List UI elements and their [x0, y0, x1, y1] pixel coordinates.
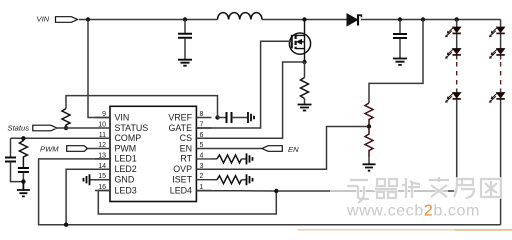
- resistor status pullup: [62, 109, 70, 129]
- svg-text:9: 9: [102, 111, 106, 118]
- node status junction: [64, 126, 68, 130]
- svg-text:EN: EN: [288, 145, 299, 154]
- node source junction: [302, 60, 306, 64]
- IC pin labels left: [115, 112, 149, 195]
- svg-text:LED4: LED4: [170, 185, 192, 195]
- capacitor COMP series: [18, 168, 29, 182]
- wire top rail: [79, 19, 501, 21]
- svg-text:LED2: LED2: [115, 164, 137, 174]
- diode D1: [347, 14, 361, 26]
- port Status: [8, 123, 96, 132]
- wire LED string 2 column: [500, 20, 502, 225]
- svg-text:1: 1: [200, 184, 204, 191]
- ground ISET: [247, 174, 253, 185]
- svg-text:7: 7: [200, 122, 204, 129]
- IC U1 body: [110, 106, 196, 201]
- IC pin numbers right: [200, 111, 204, 191]
- svg-text:VREF: VREF: [168, 112, 192, 122]
- node OVP tap: [421, 17, 425, 21]
- wire OVP feed: [369, 20, 423, 104]
- svg-text:PWM: PWM: [115, 143, 137, 153]
- capacitor COMP parallel: [5, 138, 23, 181]
- node LED2 bottom junction: [64, 223, 68, 227]
- svg-text:GATE: GATE: [168, 123, 192, 133]
- wire LED4 return: [196, 190, 456, 192]
- svg-text:10: 10: [98, 122, 106, 129]
- ground VREF cap: [248, 112, 254, 123]
- ground GND pin: [84, 174, 111, 185]
- svg-text:STATUS: STATUS: [115, 123, 149, 133]
- svg-text:VIN: VIN: [37, 15, 50, 24]
- wire LED3 return: [98, 191, 276, 215]
- capacitor input: [178, 20, 192, 60]
- LED D7 string2: [489, 93, 505, 103]
- capacitor output: [393, 20, 407, 59]
- wire OVP bottom: [368, 157, 370, 164]
- port VIN: [37, 15, 78, 24]
- watermark halo: [347, 177, 501, 203]
- svg-text:CS: CS: [180, 133, 192, 143]
- node COMP junction: [21, 136, 25, 140]
- svg-text:EN: EN: [180, 143, 192, 153]
- IC pin stubs left: [95, 118, 110, 191]
- node VREF tap: [215, 115, 219, 119]
- resistor COMP: [19, 138, 27, 167]
- svg-text:6: 6: [200, 132, 204, 139]
- LED D5 string2: [489, 27, 505, 37]
- node output cap tap: [398, 17, 402, 21]
- wire LED2 drop: [66, 169, 110, 224]
- ground input cap: [178, 60, 192, 66]
- transistor Q1 (N-MOSFET): [289, 20, 310, 63]
- ground OVP divider: [363, 164, 376, 170]
- svg-text:VIN: VIN: [115, 112, 130, 122]
- node OVP junction: [367, 124, 371, 128]
- ground COMP: [17, 182, 30, 197]
- svg-text:PWM: PWM: [40, 144, 59, 153]
- LED D4 string1: [445, 93, 461, 103]
- wire COMP: [11, 137, 111, 139]
- node input cap tap: [183, 17, 187, 21]
- watermark hanzi row: [347, 177, 501, 203]
- svg-text:GND: GND: [115, 175, 135, 185]
- port EN: [212, 145, 300, 154]
- watermark wash over LED4 wire: [330, 186, 448, 197]
- svg-text:8: 8: [200, 111, 204, 118]
- svg-text:www.cecb2b.com: www.cecb2b.com: [346, 203, 480, 220]
- node LED4 junction: [274, 189, 278, 193]
- LED D3 string1: [445, 49, 461, 59]
- svg-text:4: 4: [200, 152, 204, 159]
- svg-text:2: 2: [200, 173, 204, 180]
- LED D6 string2: [489, 49, 505, 59]
- port PWM: [40, 144, 95, 153]
- LED D2 string1: [445, 27, 461, 37]
- wire LED string 1 column: [456, 20, 458, 192]
- capacitor VREF bypass: [218, 112, 248, 123]
- node switch drain: [302, 17, 306, 21]
- svg-text:12: 12: [98, 142, 106, 149]
- wire LED1 return: [39, 159, 501, 225]
- ground output cap: [393, 59, 407, 65]
- node VIN tap: [86, 17, 90, 21]
- wire VREF to pullup: [66, 96, 218, 118]
- svg-text:OVP: OVP: [173, 164, 192, 174]
- resistor OVP top: [365, 103, 373, 127]
- wire CS link: [196, 62, 304, 138]
- watermark bottom edge: [298, 229, 512, 231]
- svg-text:LED1: LED1: [115, 154, 137, 164]
- inductor L1: [218, 13, 262, 20]
- IC pin labels right: [168, 112, 192, 195]
- resistor ISET: [212, 176, 247, 184]
- svg-text:COMP: COMP: [115, 133, 142, 143]
- svg-text:5: 5: [200, 142, 204, 149]
- resistor sense: [301, 62, 309, 104]
- svg-text:LED3: LED3: [115, 185, 137, 195]
- wire OVP link: [196, 127, 369, 170]
- node LED string 1 tap: [455, 17, 459, 21]
- svg-text:Status: Status: [8, 123, 30, 132]
- IC pin stubs right: [196, 118, 211, 191]
- wire LED string 2 dashed: [500, 62, 502, 87]
- svg-text:ISET: ISET: [172, 175, 192, 185]
- IC pin numbers left: [98, 111, 106, 191]
- resistor OVP bottom: [365, 127, 373, 158]
- resistor RT: [212, 155, 247, 163]
- wire LED string 1 dashed: [456, 62, 458, 87]
- wire gate link: [196, 41, 291, 128]
- ground RT: [247, 153, 253, 164]
- node COMP ground junction: [21, 179, 25, 183]
- wire VIN drop: [88, 20, 110, 118]
- ground sense resistor: [298, 105, 312, 111]
- svg-text:RT: RT: [180, 154, 192, 164]
